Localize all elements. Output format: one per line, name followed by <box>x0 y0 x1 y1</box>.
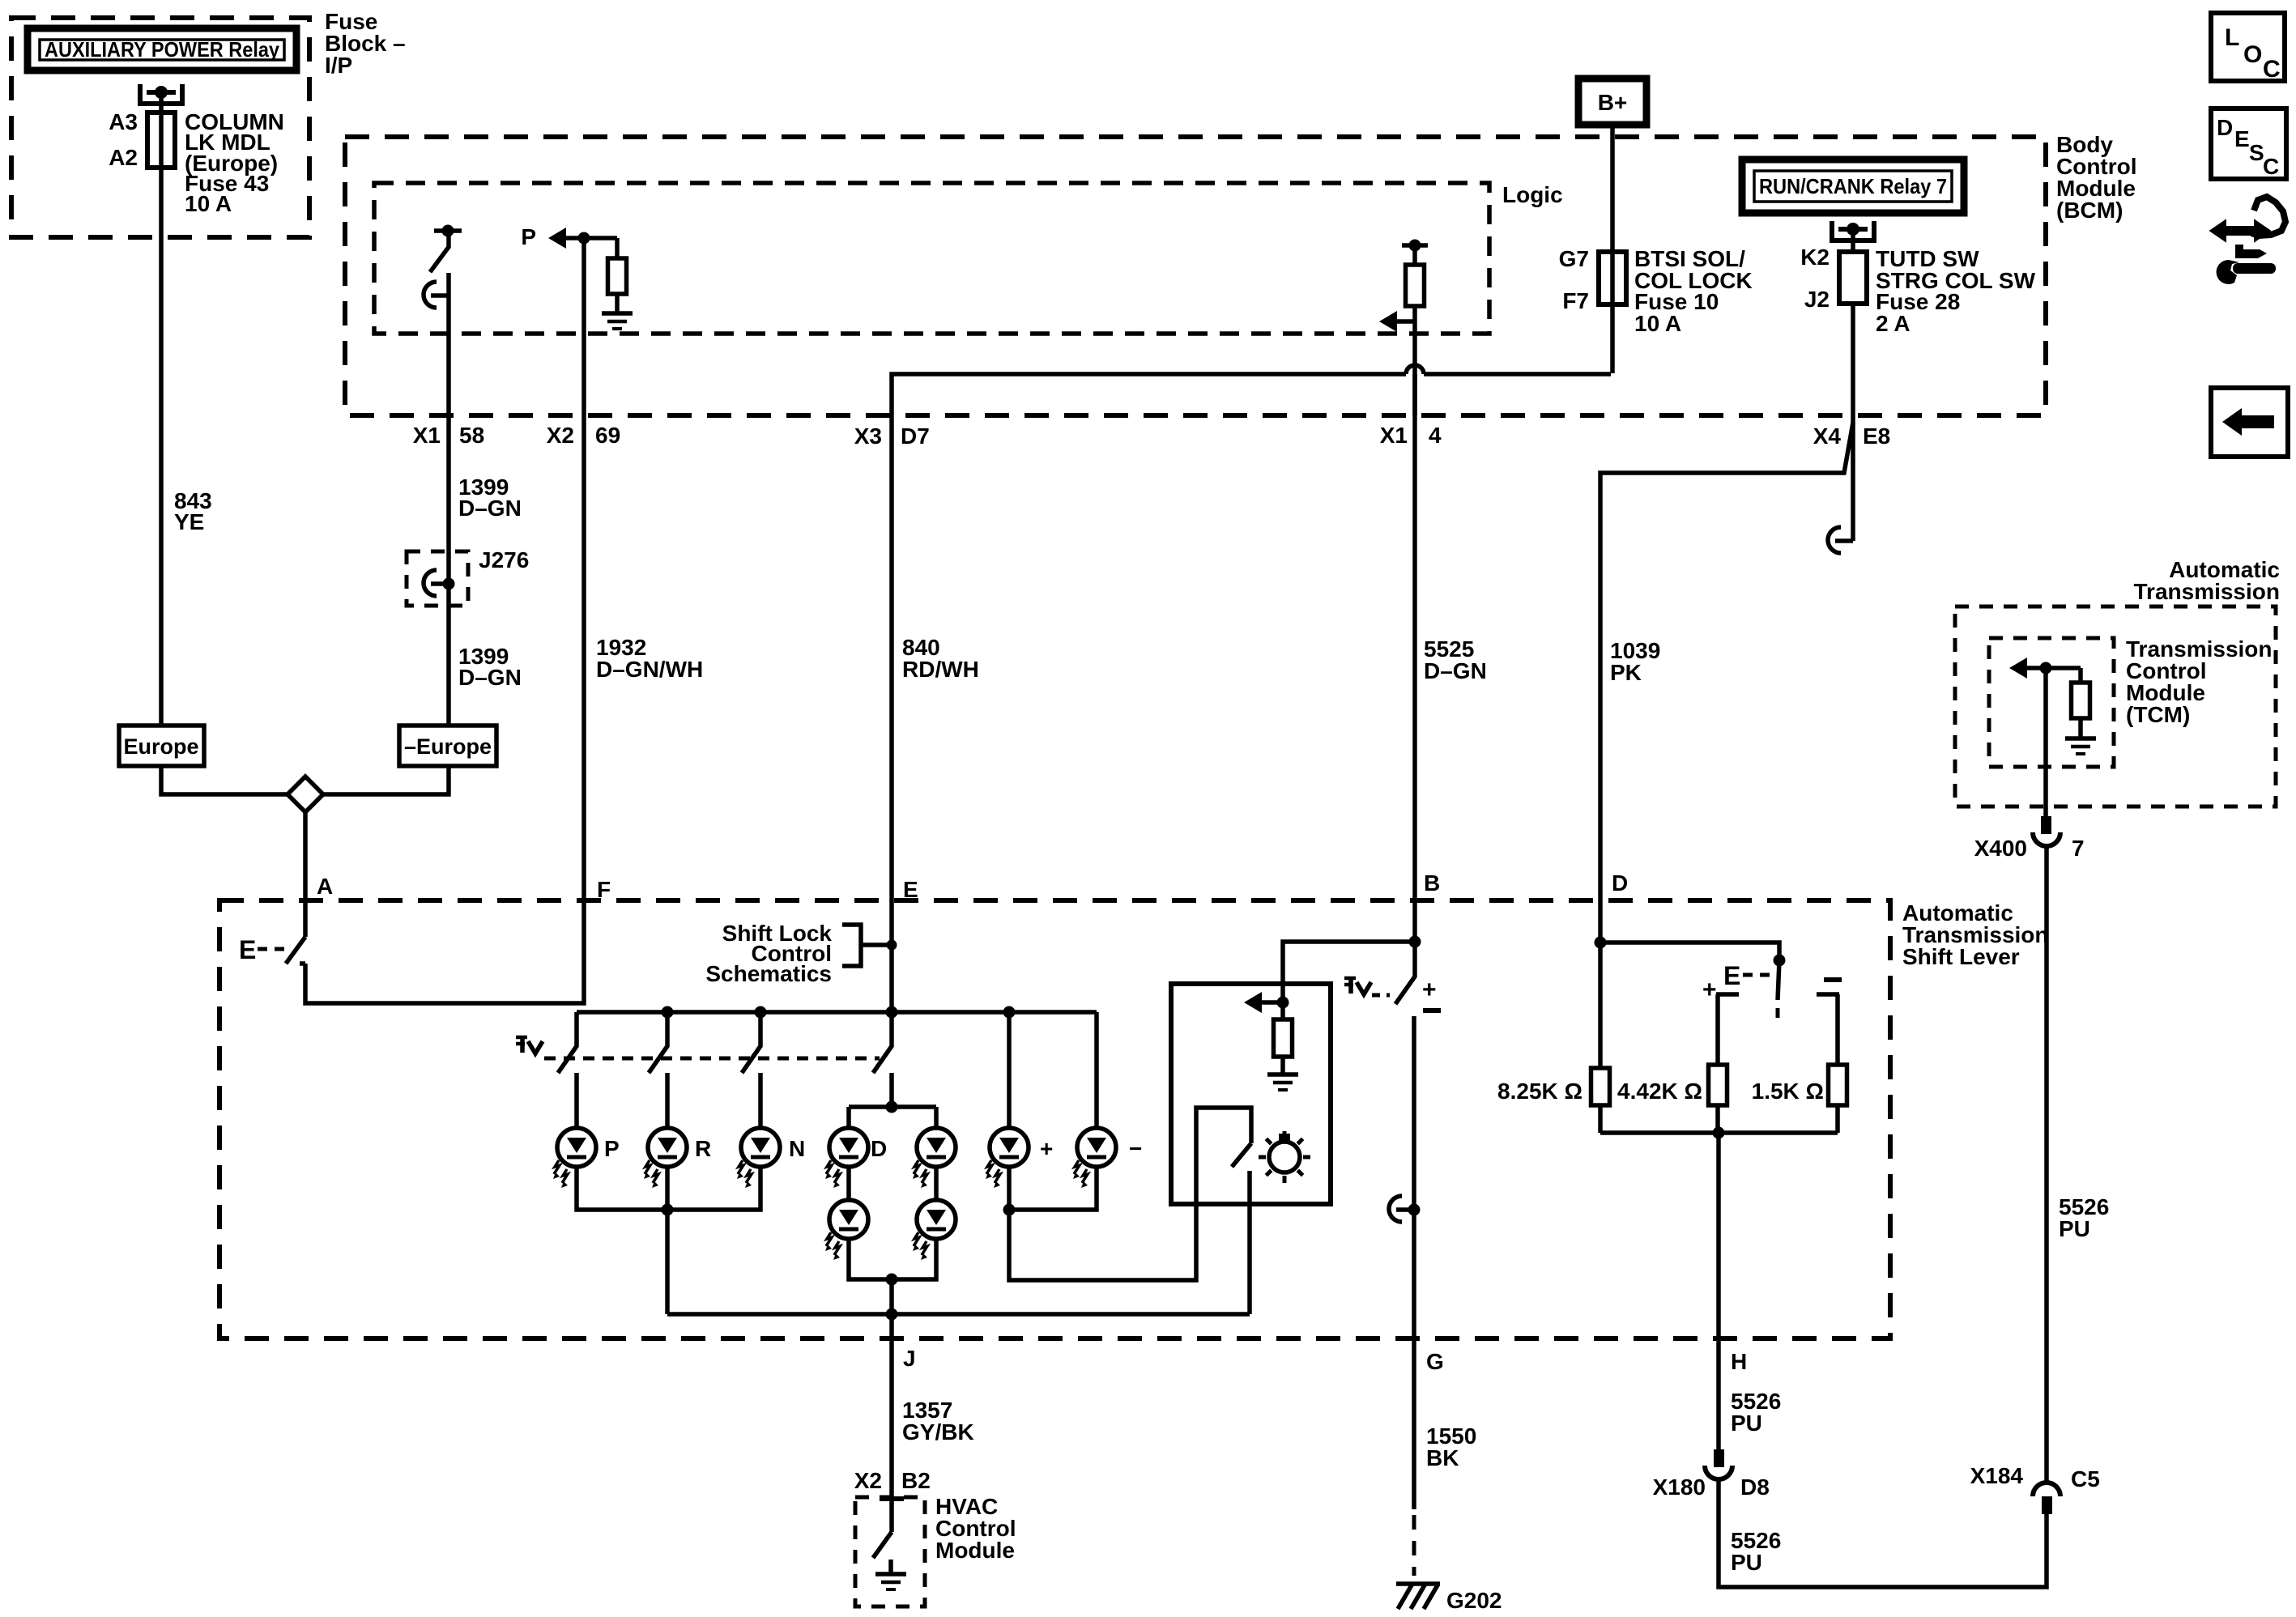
wire to lamp switch <box>1009 1108 1251 1280</box>
wire plus feed <box>1007 1012 1012 1128</box>
logic dashed box <box>374 183 1489 334</box>
LED P <box>557 1128 596 1167</box>
icon back arrow box <box>2211 388 2288 457</box>
svg-text:GY/BK: GY/BK <box>902 1419 974 1445</box>
svg-text:J276: J276 <box>479 547 529 572</box>
svg-text:RUN/CRANK Relay 7: RUN/CRANK Relay 7 <box>1759 174 1947 198</box>
splice hook on G wire <box>1396 1207 1414 1212</box>
fuse block I/P dashed box <box>11 18 309 237</box>
wire P column to LED <box>574 1107 579 1128</box>
svg-text:D: D <box>2217 115 2233 140</box>
svg-text:J2: J2 <box>1804 287 1830 312</box>
linkage symbol PRND switches <box>520 1036 525 1053</box>
element T-cap on X1-4 column <box>1402 243 1428 248</box>
svg-text:J: J <box>903 1346 916 1371</box>
LED D1 <box>829 1128 868 1167</box>
svg-text:X1: X1 <box>1380 423 1408 448</box>
wire branch to 1039 PK <box>1600 423 1853 943</box>
TCM dashed box <box>1989 638 2114 767</box>
resistor bottom bus <box>1600 1133 1838 1338</box>
svg-text:C5: C5 <box>2071 1466 2100 1491</box>
svg-text:X1: X1 <box>413 423 441 448</box>
LED N <box>741 1128 780 1167</box>
svg-text:4: 4 <box>1429 423 1442 448</box>
resistor 1.5K <box>1829 1065 1847 1105</box>
relay pin bracket <box>140 84 182 104</box>
ground lamp box <box>1267 1072 1298 1077</box>
svg-text:D–GN: D–GN <box>458 496 522 521</box>
LED D2 <box>917 1128 956 1167</box>
resistor R4 TCM <box>2078 668 2083 683</box>
svg-text:X4: X4 <box>1813 423 1842 449</box>
svg-text:D8: D8 <box>1740 1474 1770 1500</box>
wire plus-minus cathode bus <box>1009 1167 1097 1210</box>
svg-text:7: 7 <box>2072 836 2085 861</box>
wire X3-D7 column 840 RD/WH <box>892 374 1611 1012</box>
fuse 28 TUTD SW <box>1851 229 1855 252</box>
svg-text:−: − <box>1129 1136 1142 1161</box>
svg-text:G: G <box>1426 1349 1444 1374</box>
wire hop over X1-4 <box>1406 365 1424 374</box>
switch R position <box>649 1012 667 1073</box>
main cathode bus to J <box>667 1314 1250 1338</box>
bracket lines <box>842 925 892 966</box>
connector X400 7 <box>2041 816 2051 834</box>
svg-text:X180: X180 <box>1653 1474 1706 1500</box>
svg-text:PU: PU <box>2059 1216 2090 1241</box>
svg-text:AUXILIARY POWER Relay: AUXILIARY POWER Relay <box>45 37 279 62</box>
resistor 8.25K <box>1598 943 1603 1068</box>
connector X180 D8 <box>1714 1449 1724 1467</box>
wire N column to LED <box>758 1107 763 1128</box>
svg-text:D: D <box>1612 870 1628 896</box>
svg-text:+: + <box>1040 1136 1053 1161</box>
wire -Europe to diamond <box>323 766 449 794</box>
svg-text:I/P: I/P <box>325 53 352 78</box>
automatic transmission dashed box <box>1955 606 2276 806</box>
LED D4 <box>917 1200 956 1239</box>
resistor R2 (BCM logic) <box>1412 245 1417 265</box>
-Europe box <box>399 726 496 766</box>
svg-text:Module: Module <box>935 1538 1015 1563</box>
arrow TCM internal <box>2009 657 2027 679</box>
diamond junction <box>288 777 323 812</box>
ground G202 <box>1396 1584 1440 1609</box>
automatic transmission shift lever dashed box <box>219 900 1890 1338</box>
svg-text:B: B <box>1424 870 1440 896</box>
wires D branch middle <box>849 1167 936 1200</box>
linkage symbol TUTD <box>1348 977 1353 994</box>
svg-text:H: H <box>1731 1349 1747 1374</box>
svg-text:YE: YE <box>174 509 204 534</box>
switch N position <box>742 1012 760 1073</box>
svg-text:2 A: 2 A <box>1876 311 1910 336</box>
wire X1-58 column <box>446 296 451 726</box>
wire TUTD lower <box>1412 1016 1416 1509</box>
linkage dashed line <box>544 1057 880 1061</box>
LED plus <box>990 1128 1029 1167</box>
hook end below E8 <box>1835 538 1853 543</box>
svg-text:(BCM): (BCM) <box>2056 198 2123 223</box>
wire PRN cathode bus <box>577 1167 760 1314</box>
plus contact <box>1716 994 1739 1065</box>
signal arrow on X1-4 <box>1379 311 1397 332</box>
wire A <box>303 812 308 937</box>
switch D position <box>873 1012 892 1073</box>
D branch split <box>886 1101 898 1113</box>
svg-text:69: 69 <box>595 423 620 448</box>
svg-text:E: E <box>2234 126 2250 151</box>
shift position sense resistors junction <box>1595 937 1607 949</box>
svg-text:E8: E8 <box>1863 423 1890 449</box>
lamp box <box>1171 984 1331 1204</box>
svg-text:4.42K Ω: 4.42K Ω <box>1617 1079 1702 1104</box>
wire X1-4 column 5525 D-GN <box>1412 374 1417 942</box>
wires D branch bottom <box>849 1239 936 1314</box>
resistor 4.42K <box>1709 1065 1727 1105</box>
svg-text:G7: G7 <box>1559 246 1589 271</box>
svg-text:C: C <box>2263 154 2279 179</box>
svg-text:Transmission: Transmission <box>2133 579 2280 604</box>
svg-text:X400: X400 <box>1974 836 2027 861</box>
splice J276 <box>407 551 468 606</box>
wire fuse 28 down <box>1851 304 1855 541</box>
svg-text:D–GN: D–GN <box>1424 658 1487 683</box>
switch bus wire <box>577 1010 1097 1015</box>
svg-text:S: S <box>2249 140 2264 165</box>
LED minus <box>1077 1128 1116 1167</box>
icon DESC box <box>2211 109 2286 179</box>
svg-text:Shift Lever: Shift Lever <box>1902 944 2020 969</box>
svg-text:RD/WH: RD/WH <box>902 657 979 682</box>
svg-text:D–GN: D–GN <box>458 665 522 690</box>
minus contact <box>1824 977 1842 982</box>
Europe box <box>119 726 204 766</box>
svg-text:8.25K Ω: 8.25K Ω <box>1497 1079 1582 1104</box>
lamp symbol <box>1269 1142 1300 1172</box>
svg-text:X2: X2 <box>547 423 574 448</box>
icon adjust hand with double arrow and wrench <box>2212 222 2268 240</box>
svg-text:+: + <box>1422 977 1437 1003</box>
svg-text:10 A: 10 A <box>1634 311 1681 336</box>
resistor R3 lamp box <box>1280 1002 1285 1019</box>
switch P position <box>558 1012 577 1073</box>
svg-text:E: E <box>1723 961 1740 990</box>
svg-text:R: R <box>695 1136 711 1161</box>
switch blade E <box>286 937 305 964</box>
svg-text:Europe: Europe <box>123 734 198 759</box>
wire J column 1357 GY/BK <box>889 1338 894 1532</box>
wire X180 to X184 <box>1719 1479 2047 1587</box>
svg-text:L: L <box>2225 24 2239 51</box>
battery feed B+ box <box>1578 79 1646 125</box>
svg-text:PU: PU <box>1731 1550 1762 1575</box>
svg-text:D7: D7 <box>901 423 930 449</box>
svg-text:BK: BK <box>1426 1445 1459 1470</box>
svg-text:(TCM): (TCM) <box>2126 702 2190 727</box>
wire R column to LED <box>665 1107 670 1128</box>
fuse 10 BTSI SOL / COL LOCK <box>1599 252 1626 304</box>
LED D3 <box>829 1200 868 1239</box>
BCM dashed box <box>345 137 2046 415</box>
wire minus feed <box>1094 1012 1099 1128</box>
svg-text:10 A: 10 A <box>185 191 232 216</box>
relay RUN/CRANK Relay 7 <box>1742 160 1964 213</box>
arrow in lamp box <box>1277 997 1289 1009</box>
contact tick E switch <box>300 961 305 966</box>
svg-text:D–GN/WH: D–GN/WH <box>596 657 703 682</box>
blade TUTD select <box>1778 960 1779 1000</box>
svg-text:B+: B+ <box>1598 90 1628 115</box>
svg-text:G202: G202 <box>1446 1588 1502 1613</box>
wire TCM to X400 <box>2043 668 2048 818</box>
svg-text:Schematics: Schematics <box>705 961 832 986</box>
svg-text:A: A <box>317 874 333 899</box>
relay AUXILIARY POWER Relay <box>28 28 296 70</box>
svg-text:A2: A2 <box>109 145 138 170</box>
icon LOC box <box>2211 13 2285 81</box>
relay pin bracket RUN/CRANK <box>1832 221 1874 240</box>
switch HVAC internal <box>873 1532 892 1558</box>
svg-text:B2: B2 <box>901 1468 931 1493</box>
TUTD tap switch junction <box>1409 936 1421 948</box>
svg-text:D: D <box>871 1136 887 1161</box>
fuse 43 <box>147 113 175 168</box>
svg-text:K2: K2 <box>1800 245 1830 270</box>
svg-text:X2: X2 <box>854 1468 882 1493</box>
svg-text:1.5K Ω: 1.5K Ω <box>1752 1079 1824 1104</box>
svg-text:N: N <box>789 1136 805 1161</box>
ground TCM <box>2065 736 2096 741</box>
svg-text:58: 58 <box>459 423 484 448</box>
svg-text:E: E <box>239 935 256 964</box>
svg-text:P: P <box>604 1136 620 1161</box>
dashed wire to G202 <box>1412 1515 1416 1576</box>
svg-text:P: P <box>521 224 536 249</box>
svg-text:–Europe: –Europe <box>404 734 492 759</box>
svg-text:+: + <box>1702 977 1717 1003</box>
ground HVAC <box>888 1560 893 1574</box>
svg-text:PU: PU <box>1731 1411 1762 1436</box>
svg-text:C: C <box>2263 56 2281 83</box>
svg-text:Logic: Logic <box>1502 182 1563 207</box>
wire B+ to fuse 10 <box>1610 125 1615 373</box>
HVAC pin tick <box>880 1496 904 1501</box>
LED R <box>648 1128 687 1167</box>
wire 5526 PU right <box>2044 846 2049 1483</box>
svg-text:X184: X184 <box>1970 1463 2024 1488</box>
wire X2-69 column 1932 D-GN/WH <box>305 238 584 1003</box>
svg-text:O: O <box>2243 41 2262 68</box>
switch S1 column lock enable (BCM internal) <box>434 228 462 233</box>
HVAC control module dashed box <box>855 1497 925 1606</box>
ground (BCM internal) <box>602 311 633 316</box>
label minus TUTD <box>1423 1008 1441 1013</box>
svg-text:A3: A3 <box>109 109 138 134</box>
svg-text:PK: PK <box>1610 660 1642 685</box>
wire H to X180 <box>1716 1338 1721 1452</box>
connector X184 C5 <box>2033 1483 2060 1496</box>
resistor R1 (BCM pull) <box>615 238 620 258</box>
wire lamp switch bottom <box>1247 1171 1252 1314</box>
wire 843 YE <box>159 92 164 726</box>
wire into lamp box <box>1283 942 1415 1002</box>
wire Europe to diamond <box>161 766 288 794</box>
TUTD switch blade <box>1395 942 1415 1004</box>
svg-text:X3: X3 <box>854 423 882 449</box>
switch blade lamp <box>1232 1143 1251 1167</box>
svg-text:F7: F7 <box>1562 288 1589 313</box>
